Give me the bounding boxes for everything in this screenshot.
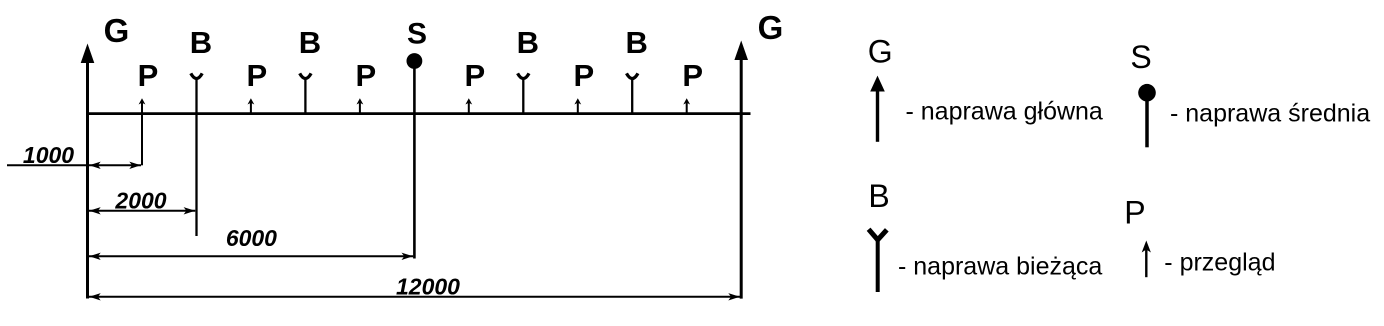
svg-text:P: P — [464, 58, 485, 93]
svg-text:G: G — [758, 9, 784, 46]
legend symbol B: fork — [869, 229, 887, 292]
svg-text:- naprawa bieżąca: - naprawa bieżąca — [898, 252, 1102, 280]
svg-text:G: G — [868, 33, 893, 69]
node B2: naprawa biezaca fork — [300, 73, 311, 114]
svg-text:- naprawa główna: - naprawa główna — [906, 98, 1103, 126]
svg-text:1000: 1000 — [23, 142, 74, 168]
svg-text:2000: 2000 — [114, 187, 166, 213]
svg-text:B: B — [190, 25, 212, 60]
dimension 1000 leader line — [7, 164, 89, 166]
dimension 6000 arrow line — [89, 253, 413, 260]
svg-text:S: S — [407, 18, 427, 51]
svg-text:P: P — [138, 58, 159, 93]
svg-text:- przegląd: - przegląd — [1164, 248, 1275, 276]
node B3: naprawa biezaca fork — [518, 73, 529, 114]
node G1: naprawa glowna arrow (left) — [81, 44, 95, 299]
node P3: przeglad tick — [357, 98, 364, 114]
svg-text:P: P — [1124, 195, 1145, 231]
svg-text:G: G — [104, 12, 130, 49]
svg-text:P: P — [573, 58, 594, 93]
svg-text:B: B — [299, 25, 321, 60]
node P6: przeglad tick — [683, 98, 690, 114]
svg-text:6000: 6000 — [226, 225, 277, 251]
node P4: przeglad tick — [465, 98, 472, 114]
svg-text:P: P — [247, 58, 268, 93]
node P1: przeglad tick — [139, 98, 146, 165]
svg-text:P: P — [682, 58, 703, 93]
legend symbol S: lollipop — [1138, 84, 1156, 147]
svg-text:B: B — [517, 25, 539, 60]
svg-text:12000: 12000 — [396, 273, 460, 299]
svg-text:B: B — [626, 25, 648, 60]
node B1: naprawa biezaca fork — [191, 73, 202, 236]
svg-text:- naprawa średnia: - naprawa średnia — [1170, 100, 1370, 128]
dimension 2000 arrow line — [89, 207, 195, 214]
dimension 1000 arrow line — [89, 162, 141, 169]
node G2: naprawa glowna arrow (right) — [734, 41, 748, 299]
node B4: naprawa biezaca fork — [627, 73, 638, 114]
node S1: naprawa srednia lollipop — [407, 53, 423, 258]
node P5: przeglad tick — [574, 98, 581, 114]
node P2: przeglad tick — [248, 98, 255, 114]
svg-text:S: S — [1130, 39, 1151, 75]
legend symbol P: small arrow — [1142, 241, 1151, 278]
legend symbol G: arrow — [870, 76, 885, 142]
dimension 12000 arrow line — [89, 293, 740, 300]
wire: main timeline baseline — [86, 112, 751, 115]
svg-text:B: B — [868, 178, 889, 214]
svg-text:P: P — [356, 58, 377, 93]
